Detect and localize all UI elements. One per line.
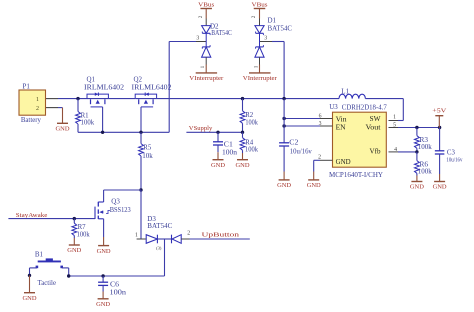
capacitor C2 xyxy=(279,138,312,171)
junction Vin xyxy=(282,117,285,120)
wire xyxy=(58,98,87,100)
resistor R1 xyxy=(76,99,95,133)
transistor Q1 xyxy=(87,93,108,133)
junction xyxy=(67,274,70,277)
capacitor C3 xyxy=(435,128,463,175)
ground xyxy=(102,292,104,299)
svg-text:2: 2 xyxy=(318,155,321,161)
wire StayAwake xyxy=(8,218,95,220)
junction rail/R2 xyxy=(241,97,244,100)
svg-text:Q2: Q2 xyxy=(134,76,143,84)
svg-text:2: 2 xyxy=(251,15,257,18)
svg-text:C3: C3 xyxy=(447,148,455,156)
svg-text:Tactile: Tactile xyxy=(38,279,57,287)
ground xyxy=(313,172,315,180)
svg-text:GND: GND xyxy=(211,162,225,169)
wire to D3 xyxy=(140,190,142,239)
svg-text:VInterrupter: VInterrupter xyxy=(243,75,277,82)
svg-text:GND: GND xyxy=(277,182,291,189)
svg-text:U3: U3 xyxy=(329,103,338,111)
ground xyxy=(103,237,105,246)
svg-text:SW: SW xyxy=(370,116,382,123)
resistor R3 xyxy=(415,128,433,152)
svg-text:3: 3 xyxy=(264,36,267,42)
wire U3 gnd xyxy=(314,159,320,161)
svg-text:R5: R5 xyxy=(143,143,151,151)
junction R2/R4/VSupply xyxy=(241,131,244,134)
node battery+ junction xyxy=(76,97,79,100)
svg-text:100k: 100k xyxy=(81,119,95,127)
svg-text:BAT54C: BAT54C xyxy=(211,29,232,37)
svg-text:1: 1 xyxy=(135,232,138,238)
svg-text:BAT54C: BAT54C xyxy=(147,222,172,230)
junction R3 xyxy=(415,126,418,129)
svg-text:5: 5 xyxy=(393,122,396,128)
capacitor C1 xyxy=(213,132,238,156)
svg-text:C6: C6 xyxy=(110,280,120,288)
wire Vout xyxy=(398,127,440,129)
pin 3 EN xyxy=(320,125,333,127)
svg-text:100k: 100k xyxy=(77,230,90,238)
transistor Q2 xyxy=(135,93,156,133)
junction R5/Q3/D3 xyxy=(139,188,142,191)
resistor R2 xyxy=(240,99,258,133)
diode D1 xyxy=(251,15,292,68)
power VInterrupter (D1) xyxy=(243,65,277,83)
wire rail to L1 xyxy=(157,98,339,100)
svg-text:Vin: Vin xyxy=(336,117,348,124)
junction R7 xyxy=(73,217,76,220)
pin 2 of P1 xyxy=(46,107,58,109)
svg-text:(3): (3) xyxy=(156,246,162,251)
svg-text:L1: L1 xyxy=(341,88,349,96)
svg-text:4: 4 xyxy=(394,147,397,153)
resistor R7 xyxy=(72,219,90,239)
wire VSupply xyxy=(186,131,242,133)
wire EN xyxy=(284,125,320,127)
svg-text:CDRH2D18-4.7: CDRH2D18-4.7 xyxy=(342,103,387,111)
ground xyxy=(439,174,441,182)
svg-text:1: 1 xyxy=(36,97,39,103)
svg-text:VInterrupter: VInterrupter xyxy=(189,75,223,82)
junction +5V/C3 xyxy=(438,126,441,129)
ground xyxy=(416,176,418,182)
wire D2 cathode to gate net xyxy=(168,42,170,133)
svg-text:GND: GND xyxy=(307,182,321,189)
svg-text:10u/16v: 10u/16v xyxy=(446,156,463,163)
svg-text:GND: GND xyxy=(67,247,81,254)
svg-text:10u/16v: 10u/16v xyxy=(290,148,312,156)
wire to Q3 drain xyxy=(104,189,141,191)
junction C6 xyxy=(101,274,104,277)
ground xyxy=(62,108,64,124)
svg-text:BAT54C: BAT54C xyxy=(268,25,293,33)
svg-text:Battery: Battery xyxy=(21,116,41,124)
svg-text:GND: GND xyxy=(336,159,351,166)
switch B1 xyxy=(35,250,63,287)
svg-text:GND: GND xyxy=(56,126,70,133)
svg-text:GND: GND xyxy=(96,301,110,308)
svg-text:C2: C2 xyxy=(289,138,299,146)
wire D3 common to C6 net xyxy=(164,239,166,276)
svg-text:BSS123: BSS123 xyxy=(110,206,131,214)
wire xyxy=(108,98,135,100)
resistor R5 xyxy=(139,132,154,190)
power VBus (D1) xyxy=(254,8,266,10)
battery P1 xyxy=(19,83,46,125)
svg-text:10k: 10k xyxy=(142,152,153,160)
pin 5 Vout xyxy=(389,127,399,129)
diode D3 xyxy=(135,215,190,251)
svg-text:GND: GND xyxy=(23,295,37,302)
svg-text:100k: 100k xyxy=(418,168,433,176)
junction Q1 gate xyxy=(101,131,104,134)
resistor R4 xyxy=(240,132,258,153)
svg-text:2: 2 xyxy=(187,231,190,237)
svg-text:IRLML6402: IRLML6402 xyxy=(132,84,173,92)
wire L1 to SW xyxy=(365,98,403,100)
pin 2 GND xyxy=(320,159,333,161)
junction Q2 gate / R5 xyxy=(139,131,142,134)
svg-text:1: 1 xyxy=(254,65,260,68)
svg-text:1: 1 xyxy=(200,65,206,68)
svg-text:1: 1 xyxy=(393,114,396,120)
svg-text:Q1: Q1 xyxy=(87,76,96,84)
pin 1 SW xyxy=(389,120,399,122)
pin 1 of P1 xyxy=(46,98,58,100)
ground xyxy=(242,153,244,160)
svg-text:GND: GND xyxy=(433,184,447,191)
junction R3/R6 xyxy=(415,150,418,153)
svg-text:2: 2 xyxy=(198,15,204,18)
svg-text:GND: GND xyxy=(410,184,424,191)
transistor Q3 xyxy=(95,190,110,237)
svg-text:D1: D1 xyxy=(268,17,277,25)
svg-text:Q3: Q3 xyxy=(111,197,120,205)
svg-text:GND: GND xyxy=(236,162,250,169)
wire Vfb xyxy=(398,151,417,153)
svg-text:GND: GND xyxy=(97,248,111,255)
diode D2 xyxy=(196,15,232,68)
svg-text:EN: EN xyxy=(336,124,346,131)
svg-text:P1: P1 xyxy=(23,83,31,91)
wire xyxy=(58,107,63,109)
svg-text:Vout: Vout xyxy=(366,124,381,131)
pin 4 Vfb xyxy=(389,151,399,153)
power VBus (D2) xyxy=(200,8,212,10)
junction xyxy=(28,274,31,277)
junction C1 xyxy=(216,131,219,134)
pin 6 Vin xyxy=(320,118,333,120)
svg-text:100k: 100k xyxy=(245,146,258,154)
wire B1 right xyxy=(62,267,69,269)
ground xyxy=(283,172,285,180)
svg-text:MCP1640T-I/CHY: MCP1640T-I/CHY xyxy=(329,171,383,179)
svg-text:100k: 100k xyxy=(418,143,433,151)
resistor R6 xyxy=(415,152,433,176)
wire Vin xyxy=(284,118,320,120)
svg-text:C1: C1 xyxy=(224,140,234,148)
wire Vin column to C2 xyxy=(283,99,285,143)
ground xyxy=(29,275,31,292)
svg-text:100n: 100n xyxy=(110,289,127,297)
svg-text:VSupply: VSupply xyxy=(189,125,213,132)
capacitor C6 xyxy=(98,276,126,297)
svg-text:3: 3 xyxy=(196,36,199,42)
svg-text:100k: 100k xyxy=(245,118,258,126)
wire D1 pin3 to Vin net xyxy=(272,41,284,43)
power +5V xyxy=(435,115,443,117)
svg-text:StayAwake: StayAwake xyxy=(16,212,48,219)
svg-text:B1: B1 xyxy=(35,250,44,258)
junction rail/D1-Vin xyxy=(282,97,285,100)
svg-text:UpButton: UpButton xyxy=(202,232,241,239)
ground xyxy=(217,152,219,160)
wire B1 left to gnd xyxy=(30,267,37,269)
svg-text:IRLML6402: IRLML6402 xyxy=(84,84,125,92)
ground xyxy=(73,238,75,245)
svg-text:VBus: VBus xyxy=(252,2,268,9)
inductor L1 xyxy=(339,88,365,99)
junction EN xyxy=(282,124,285,127)
wire UpButton xyxy=(190,238,250,240)
wire gate net xyxy=(78,131,169,133)
svg-text:2: 2 xyxy=(36,106,39,112)
power VInterrupter (D2) xyxy=(189,65,223,83)
svg-text:Vfb: Vfb xyxy=(370,149,382,156)
IC U3 MCP1640T xyxy=(329,103,386,167)
svg-text:VBus: VBus xyxy=(198,2,214,9)
svg-text:+5V: +5V xyxy=(432,108,446,115)
svg-text:100n: 100n xyxy=(222,148,238,156)
